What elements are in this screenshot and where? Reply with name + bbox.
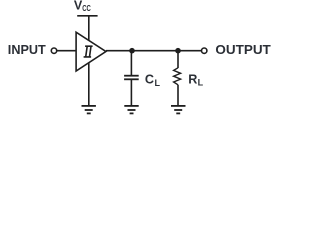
power VCC label — [74, 0, 91, 13]
svg-text:CC: CC — [82, 4, 91, 13]
output terminal circle — [202, 48, 207, 53]
wire: resistor to ground — [177, 85, 179, 106]
hysteresis symbol inside buffer — [84, 46, 93, 57]
junction node (resistor branch) — [175, 48, 181, 54]
wire: junction down to resistor — [177, 51, 179, 68]
wire: buffer bottom to ground — [88, 63, 90, 106]
resistor RL zigzag — [174, 68, 181, 85]
capacitor CL plates — [124, 75, 139, 77]
input terminal circle — [51, 48, 56, 53]
ground (buffer) — [82, 106, 96, 114]
svg-text:L: L — [155, 78, 161, 88]
VCC rail bar — [77, 15, 97, 17]
svg-text:L: L — [198, 78, 204, 88]
svg-text:C: C — [145, 73, 154, 87]
wire: input to buffer — [57, 50, 76, 52]
ground (capacitor) — [124, 106, 138, 114]
label CL — [145, 73, 161, 88]
svg-text:INPUT: INPUT — [8, 42, 46, 57]
label RL — [188, 72, 203, 87]
wire: buffer output to OUTPUT terminal — [106, 50, 201, 52]
svg-text:R: R — [188, 72, 197, 86]
op-amp buffer U1 (triangle) — [76, 32, 106, 71]
junction node (capacitor branch) — [129, 48, 135, 54]
ground (resistor) — [171, 106, 186, 114]
wire: junction down to capacitor — [130, 51, 132, 75]
wire: capacitor to ground — [130, 80, 132, 105]
wire: VCC stem into buffer — [88, 17, 90, 41]
svg-text:OUTPUT: OUTPUT — [215, 42, 270, 57]
